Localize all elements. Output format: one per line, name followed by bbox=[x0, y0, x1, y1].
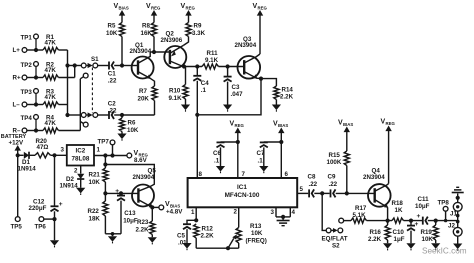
svg-text:47K: 47K bbox=[45, 67, 57, 74]
svg-text:10K: 10K bbox=[106, 30, 118, 37]
svg-text:2N3904: 2N3904 bbox=[133, 174, 155, 181]
svg-text:TP2: TP2 bbox=[21, 62, 33, 69]
svg-text:220μF: 220μF bbox=[29, 205, 47, 212]
svg-text:IC2: IC2 bbox=[75, 148, 85, 155]
svg-text:MF4CN-100: MF4CN-100 bbox=[225, 192, 260, 199]
svg-text:47Ω: 47Ω bbox=[37, 144, 49, 151]
svg-text:+: + bbox=[59, 201, 63, 208]
svg-text:REG: REG bbox=[186, 6, 196, 11]
svg-text:.22: .22 bbox=[329, 181, 338, 188]
svg-text:L–: L– bbox=[13, 102, 21, 109]
svg-text:47K: 47K bbox=[45, 39, 57, 46]
svg-text:REG: REG bbox=[151, 6, 161, 11]
svg-text:R21: R21 bbox=[89, 172, 101, 179]
svg-text:REG: REG bbox=[258, 6, 268, 11]
svg-text:BIAS: BIAS bbox=[343, 122, 353, 127]
svg-text:C10: C10 bbox=[393, 229, 405, 236]
svg-text:R13: R13 bbox=[250, 223, 262, 230]
svg-text:C1: C1 bbox=[108, 70, 116, 77]
svg-text:SeekIC.com: SeekIC.com bbox=[422, 247, 467, 256]
svg-text:18K: 18K bbox=[89, 215, 101, 222]
svg-text:2.2K: 2.2K bbox=[280, 94, 294, 101]
svg-text:L+: L+ bbox=[13, 47, 21, 54]
svg-text:3.3K: 3.3K bbox=[192, 30, 206, 37]
svg-text:9.1K: 9.1K bbox=[205, 57, 219, 64]
svg-text:10K: 10K bbox=[89, 179, 101, 186]
svg-text:R7: R7 bbox=[139, 88, 147, 95]
svg-text:2N3904: 2N3904 bbox=[363, 174, 385, 181]
svg-text:R11: R11 bbox=[207, 50, 219, 57]
svg-text:10K: 10K bbox=[127, 127, 139, 134]
svg-text:.01: .01 bbox=[178, 240, 187, 247]
svg-text:IC1: IC1 bbox=[237, 184, 247, 191]
svg-text:.1: .1 bbox=[258, 157, 264, 164]
svg-text:2: 2 bbox=[234, 209, 238, 216]
svg-text:.22: .22 bbox=[108, 78, 117, 85]
svg-text:TP6: TP6 bbox=[35, 223, 47, 230]
svg-text:R9: R9 bbox=[194, 23, 202, 30]
svg-text:R15: R15 bbox=[329, 152, 341, 159]
svg-text:C3: C3 bbox=[232, 84, 240, 91]
svg-text:+4.8V: +4.8V bbox=[166, 208, 183, 215]
svg-text:+12V: +12V bbox=[9, 140, 24, 147]
svg-text:.047: .047 bbox=[231, 91, 244, 98]
svg-text:47K: 47K bbox=[45, 120, 57, 127]
svg-text:2.2K: 2.2K bbox=[368, 236, 382, 243]
svg-text:6: 6 bbox=[285, 171, 289, 178]
svg-text:10K: 10K bbox=[422, 236, 434, 243]
svg-text:C11: C11 bbox=[418, 196, 430, 203]
svg-text:C7: C7 bbox=[257, 150, 265, 157]
svg-text:(FREQ): (FREQ) bbox=[246, 237, 267, 244]
svg-text:R6: R6 bbox=[128, 120, 136, 127]
svg-text:EQ/FLAT: EQ/FLAT bbox=[322, 235, 348, 242]
svg-text:10μF: 10μF bbox=[415, 203, 430, 210]
svg-text:R22: R22 bbox=[88, 208, 100, 215]
svg-text:.22: .22 bbox=[108, 108, 117, 115]
svg-text:R12: R12 bbox=[202, 225, 214, 232]
svg-text:4: 4 bbox=[292, 209, 296, 216]
svg-text:7: 7 bbox=[242, 171, 246, 178]
svg-text:78L08: 78L08 bbox=[71, 155, 89, 162]
svg-text:.22: .22 bbox=[309, 181, 318, 188]
svg-text:8: 8 bbox=[199, 171, 203, 178]
svg-text:BIAS: BIAS bbox=[278, 123, 288, 128]
svg-text:R17: R17 bbox=[355, 205, 367, 212]
svg-text:TP4: TP4 bbox=[21, 115, 33, 122]
svg-text:1K: 1K bbox=[395, 207, 403, 214]
svg-text:C2: C2 bbox=[108, 101, 116, 108]
svg-text:2: 2 bbox=[74, 167, 78, 174]
svg-text:1: 1 bbox=[97, 146, 101, 153]
svg-text:1N914: 1N914 bbox=[18, 165, 37, 172]
svg-text:2N3906: 2N3906 bbox=[161, 37, 183, 44]
svg-text:2.2K: 2.2K bbox=[201, 233, 215, 240]
svg-text:R18: R18 bbox=[392, 200, 404, 207]
svg-text:R5: R5 bbox=[108, 23, 116, 30]
svg-text:REG: REG bbox=[386, 121, 396, 126]
svg-text:3: 3 bbox=[61, 146, 65, 153]
svg-text:1N914: 1N914 bbox=[60, 182, 79, 189]
svg-text:R16: R16 bbox=[370, 229, 382, 236]
svg-text:BIAS: BIAS bbox=[119, 6, 129, 11]
svg-text:9.1K: 9.1K bbox=[169, 95, 183, 102]
svg-text:REG: REG bbox=[235, 123, 245, 128]
svg-text:+: + bbox=[417, 213, 421, 220]
svg-text:+: + bbox=[115, 188, 119, 195]
svg-text:20K: 20K bbox=[138, 95, 150, 102]
svg-text:C9: C9 bbox=[328, 174, 336, 181]
svg-text:+: + bbox=[415, 221, 419, 228]
svg-text:2N3904: 2N3904 bbox=[130, 48, 152, 55]
svg-text:R+: R+ bbox=[13, 75, 21, 82]
svg-text:R19: R19 bbox=[421, 229, 433, 236]
svg-text:100K: 100K bbox=[327, 159, 342, 166]
svg-text:TP5: TP5 bbox=[11, 223, 23, 230]
svg-text:R8: R8 bbox=[142, 23, 150, 30]
svg-text:C4: C4 bbox=[201, 80, 209, 87]
svg-text:TP7: TP7 bbox=[98, 138, 110, 145]
svg-text:2.2K: 2.2K bbox=[136, 226, 150, 233]
svg-text:5: 5 bbox=[300, 186, 304, 193]
svg-text:C8: C8 bbox=[308, 174, 316, 181]
svg-text:5.1K: 5.1K bbox=[353, 212, 367, 219]
svg-text:TP3: TP3 bbox=[21, 89, 33, 96]
svg-text:S1: S1 bbox=[91, 56, 99, 63]
svg-text:1μF: 1μF bbox=[394, 236, 405, 243]
svg-text:.1: .1 bbox=[214, 157, 220, 164]
svg-text:TP1: TP1 bbox=[21, 34, 33, 41]
svg-text:.1: .1 bbox=[201, 87, 207, 94]
svg-text:S2: S2 bbox=[332, 243, 340, 250]
svg-text:R14: R14 bbox=[282, 86, 294, 93]
svg-text:C6: C6 bbox=[213, 150, 221, 157]
svg-text:47K: 47K bbox=[45, 94, 57, 101]
svg-text:3: 3 bbox=[271, 209, 275, 216]
svg-text:16K: 16K bbox=[141, 30, 153, 37]
svg-text:2N3904: 2N3904 bbox=[235, 42, 257, 49]
svg-text:10μF: 10μF bbox=[123, 217, 138, 224]
svg-text:TP8: TP8 bbox=[438, 200, 450, 207]
svg-text:8.6V: 8.6V bbox=[134, 157, 148, 164]
svg-text:C13: C13 bbox=[124, 210, 136, 217]
svg-text:C5: C5 bbox=[177, 232, 185, 239]
svg-text:R10: R10 bbox=[169, 88, 181, 95]
svg-text:1: 1 bbox=[191, 209, 195, 216]
svg-text:R23: R23 bbox=[137, 219, 149, 226]
svg-text:10K: 10K bbox=[251, 230, 263, 237]
